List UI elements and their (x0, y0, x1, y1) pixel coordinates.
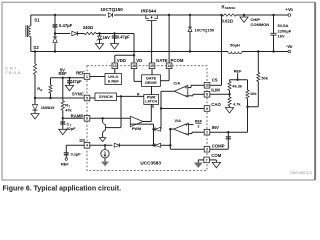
svg-text:Figure 6. Typical application: Figure 6. Typical application circuit. (3, 185, 122, 192)
svg-text:CAO: CAO (211, 102, 221, 107)
svg-text:PCOM: PCOM (171, 58, 184, 63)
diode SS clamp (114, 143, 119, 147)
svg-text:2: 2 (206, 131, 208, 135)
svg-text:& REF: & REF (108, 79, 120, 83)
svg-text:4: 4 (86, 144, 88, 148)
svg-text:COMP: COMP (212, 143, 225, 148)
wire CS input (191, 84, 204, 86)
capacitor Ct 82pF (62, 118, 64, 122)
wire synch to R (117, 95, 144, 97)
svg-text:SYNCH: SYNCH (99, 94, 113, 99)
op-amp V/A (174, 123, 189, 135)
wire ramp to pwm (90, 117, 131, 119)
resistor 46.3k (229, 80, 231, 82)
pin VDD 13 (112, 63, 118, 69)
svg-text:5V,5A: 5V,5A (278, 23, 289, 28)
wire VDD branch (115, 54, 134, 56)
node zener tap (98, 32, 100, 34)
node S2 tap (34, 50, 36, 52)
pin VD 16 (131, 63, 137, 69)
node divider join (246, 106, 248, 108)
svg-text:15: 15 (150, 64, 154, 68)
node Rt top (62, 77, 64, 79)
svg-text:8: 8 (206, 93, 208, 97)
svg-text:50µH: 50µH (230, 42, 240, 47)
pin INV 2 (204, 129, 210, 135)
svg-text:7: 7 (206, 158, 208, 162)
wire sync node (35, 97, 84, 99)
diode 1N5819 (34, 98, 36, 104)
svg-text:C/A: C/A (174, 80, 181, 85)
wire latch S input (150, 104, 152, 121)
resistor Rsense 0.02ohm (222, 14, 236, 17)
wire REF feed (230, 79, 248, 81)
svg-text:S2: S2 (33, 45, 39, 50)
svg-text:CS: CS (212, 78, 218, 83)
svg-text:0.1µF: 0.1µF (71, 151, 82, 156)
pin REF 1 (84, 74, 90, 80)
terminal +Vo (288, 14, 291, 17)
transformer secondary winding S1/S2 (29, 26, 31, 37)
plus mark V/A (185, 124, 187, 126)
wire top rail to +Vo (236, 14, 288, 16)
wire REF stub (237, 73, 239, 79)
node freewheel tap (189, 14, 191, 16)
svg-text:T R O D: T R O D (5, 71, 21, 75)
wire 50k corner (248, 106, 259, 108)
minus mark V/A (185, 132, 187, 134)
svg-text:UCC3583: UCC3583 (140, 161, 161, 166)
resistor Rb (50, 78, 52, 85)
wire ramp (63, 117, 84, 119)
diode D3 clamp (54, 34, 56, 37)
wire pump node to D2 (55, 33, 70, 35)
svg-text:5: 5 (86, 96, 88, 100)
node pump junction (54, 32, 56, 34)
capacitor 0.47uF vdd (114, 34, 116, 37)
svg-text:14: 14 (167, 64, 171, 68)
block GATE DRIVE (151, 69, 153, 75)
minus mark C/A (185, 95, 187, 97)
svg-text:S: S (151, 105, 154, 109)
svg-text:1: 1 (86, 75, 88, 79)
diode D2 pump series (72, 31, 78, 35)
svg-text:LATCH: LATCH (145, 100, 157, 104)
resistor 240 ohm (85, 32, 97, 35)
plus mark C/A (185, 87, 187, 89)
node charge pump top tap (54, 14, 56, 16)
svg-text:0.47µF: 0.47µF (117, 35, 130, 40)
svg-text:47k: 47k (65, 107, 72, 112)
svg-text:10CTQ150: 10CTQ150 (100, 7, 123, 12)
wire S2 tap down (34, 52, 36, 64)
node sync N1 (34, 97, 36, 99)
node output cap bottom (272, 50, 274, 52)
svg-text:REF: REF (234, 68, 242, 73)
pin ILIM 8 (204, 92, 210, 98)
svg-text:0.47µF: 0.47µF (59, 23, 73, 28)
wire CAO to pin (161, 108, 204, 110)
svg-text:V/A: V/A (175, 118, 182, 123)
wire pwm out (143, 121, 151, 123)
svg-text:IRF644: IRF644 (141, 9, 157, 14)
capacitor 0.1uF soft start (65, 145, 67, 153)
wire VD drop to pin (133, 55, 135, 63)
node current source tap (104, 144, 106, 146)
svg-text:SS: SS (79, 138, 85, 143)
diode Da from CAO (155, 127, 161, 131)
resistor 4.7k (229, 94, 231, 97)
pin SYNC 5 (84, 95, 90, 101)
ground COM open (212, 162, 220, 167)
node V/A out (169, 128, 171, 130)
svg-text:VDD: VDD (117, 58, 126, 63)
node ref cap tap (68, 77, 70, 79)
node output cap top (272, 14, 274, 16)
wire SS right (90, 144, 113, 146)
resistor Rt 47k (62, 78, 64, 101)
transistor ramp discharge (101, 117, 103, 119)
wire top rail left (S1 to D1) (31, 14, 106, 16)
wire COM right (210, 159, 217, 161)
wire INV input (192, 131, 204, 133)
node ILIM divider (228, 93, 230, 95)
svg-text:INV: INV (212, 125, 219, 130)
capacitor 2200uF output (273, 15, 275, 33)
svg-text:16V: 16V (103, 35, 111, 40)
capacitor 47uF ref (69, 78, 71, 81)
node comp cap tap (227, 131, 229, 133)
svg-text:10k: 10k (250, 91, 257, 96)
node chip common tap (243, 14, 245, 16)
wire gate lead (151, 21, 153, 63)
op-amp C/A (174, 85, 188, 97)
capacitor 0.47uF pump (54, 15, 56, 25)
node ramp junction (62, 117, 64, 119)
wire to sync node (34, 75, 36, 99)
wire CAO drop (160, 91, 162, 129)
zener 16V (99, 34, 101, 37)
svg-text:UDG-96072-2: UDG-96072-2 (290, 171, 312, 175)
wire SS left (66, 144, 84, 146)
svg-text:REF: REF (76, 70, 85, 75)
capacitor compensation (227, 132, 229, 137)
svg-text:REF: REF (195, 120, 203, 124)
transistor Q1 IRF644 MOSFET (146, 15, 149, 19)
svg-text:U N I: U N I (5, 66, 17, 70)
wire REF/2 stub (188, 124, 193, 126)
block UVLO and REF (90, 76, 105, 78)
svg-text:9: 9 (206, 107, 208, 111)
node 50k tap (257, 50, 259, 52)
pin CAO 9 (204, 106, 210, 112)
inductor 50uH (228, 52, 242, 54)
svg-text:10CTQ150: 10CTQ150 (195, 27, 215, 32)
svg-text:ILIM: ILIM (211, 88, 220, 93)
svg-text:S1: S1 (34, 18, 40, 23)
pin GATE 15 (149, 63, 155, 69)
node Db branch (169, 144, 171, 146)
svg-text:GATE: GATE (156, 58, 168, 63)
wire D2 to R 240 (78, 33, 85, 35)
svg-text:VD: VD (136, 58, 142, 63)
resistor divider upper (33, 64, 36, 75)
svg-text:2: 2 (198, 124, 200, 128)
svg-text:240Ω: 240Ω (83, 25, 94, 30)
current source soft start (104, 145, 106, 149)
node CS sense tap (220, 14, 222, 16)
wire VDD supply node (96, 33, 134, 35)
wire pcom lead (168, 15, 170, 63)
terminal -Vo (288, 50, 291, 53)
ground chip common (243, 15, 245, 17)
svg-text:0.02Ω: 0.02Ω (222, 18, 234, 23)
resistor 50k (257, 52, 259, 73)
wire pwm lower input (130, 123, 153, 125)
svg-text:SYNC: SYNC (72, 91, 84, 96)
svg-text:1N5819: 1N5819 (41, 105, 55, 110)
svg-text:SENSE: SENSE (225, 6, 236, 10)
wire divider to INV (247, 107, 249, 132)
node VDD/VD junction (133, 54, 135, 56)
svg-text:3: 3 (206, 148, 208, 152)
wire return rail to -Vo (242, 51, 288, 53)
wire C/A out (161, 90, 174, 92)
border frame (2, 2, 315, 180)
svg-text:DRIVE: DRIVE (145, 81, 157, 85)
svg-text:4.7k: 4.7k (233, 101, 241, 106)
pin RAMP 6 (84, 116, 90, 122)
pin PCOM 14 (166, 63, 172, 69)
comparator PWM (130, 116, 143, 126)
node Rb bottom (49, 97, 51, 99)
IC boundary dashed box UCC3583 (87, 66, 207, 171)
wire comp drop (169, 129, 171, 149)
terminal REF stub (65, 158, 67, 160)
pin COMP 3 (204, 146, 210, 152)
wire CS to Rsense (210, 84, 222, 86)
svg-text:GATE: GATE (146, 77, 157, 81)
svg-text:COM: COM (211, 153, 221, 158)
svg-text:16V: 16V (278, 33, 285, 38)
svg-text:50k: 50k (261, 75, 268, 80)
svg-text:16: 16 (132, 64, 136, 68)
wire 5V REF (51, 77, 85, 79)
svg-text:13: 13 (113, 64, 117, 68)
block SYNCH (90, 97, 95, 99)
svg-text:-Vo: -Vo (286, 44, 293, 49)
svg-text:6: 6 (86, 117, 88, 121)
svg-text:PWM: PWM (132, 127, 141, 131)
svg-text:46.3k: 46.3k (232, 84, 243, 89)
wire ILIM input (193, 93, 204, 95)
svg-text:REF: REF (59, 71, 68, 76)
node diode OR cathode top (153, 124, 155, 145)
wire V/A out (170, 128, 173, 130)
wire ILIM external (210, 93, 230, 95)
svg-text:RAMP: RAMP (71, 114, 84, 119)
node freewheel bottom (189, 50, 191, 52)
node vdd cap tap (113, 32, 115, 34)
svg-text:82pF: 82pF (67, 126, 77, 131)
wire comp inside (170, 148, 204, 150)
svg-text:B: B (40, 88, 42, 92)
ground COM filled (194, 163, 202, 168)
svg-text:REF: REF (61, 161, 69, 166)
resistor 10k (247, 80, 249, 90)
svg-text:47µF: 47µF (72, 79, 82, 84)
pin COM 7 (204, 157, 210, 163)
block PWM LATCH (151, 86, 153, 94)
pin CS 10 (204, 83, 210, 89)
diode D1 10CTQ150 series rectifier (108, 13, 112, 17)
wire COM left (198, 159, 204, 161)
node REF stub (236, 79, 238, 81)
diode D4 10CTQ150 freewheel (189, 15, 191, 27)
svg-text:+Vo: +Vo (286, 7, 294, 12)
svg-text:10: 10 (205, 84, 209, 88)
diode Db from COMP (155, 143, 161, 147)
node switch junction PCOM tap (168, 14, 170, 16)
pin SS 4 (84, 143, 90, 149)
wire return rail (S2 to 50uH) (31, 51, 228, 53)
node CAO junction (160, 107, 162, 109)
wire COMP external (210, 148, 229, 150)
svg-text:COMMON: COMMON (251, 22, 270, 27)
node clamp to return rail (54, 50, 56, 52)
wire top rail (D1 to Rsense) (114, 14, 222, 16)
